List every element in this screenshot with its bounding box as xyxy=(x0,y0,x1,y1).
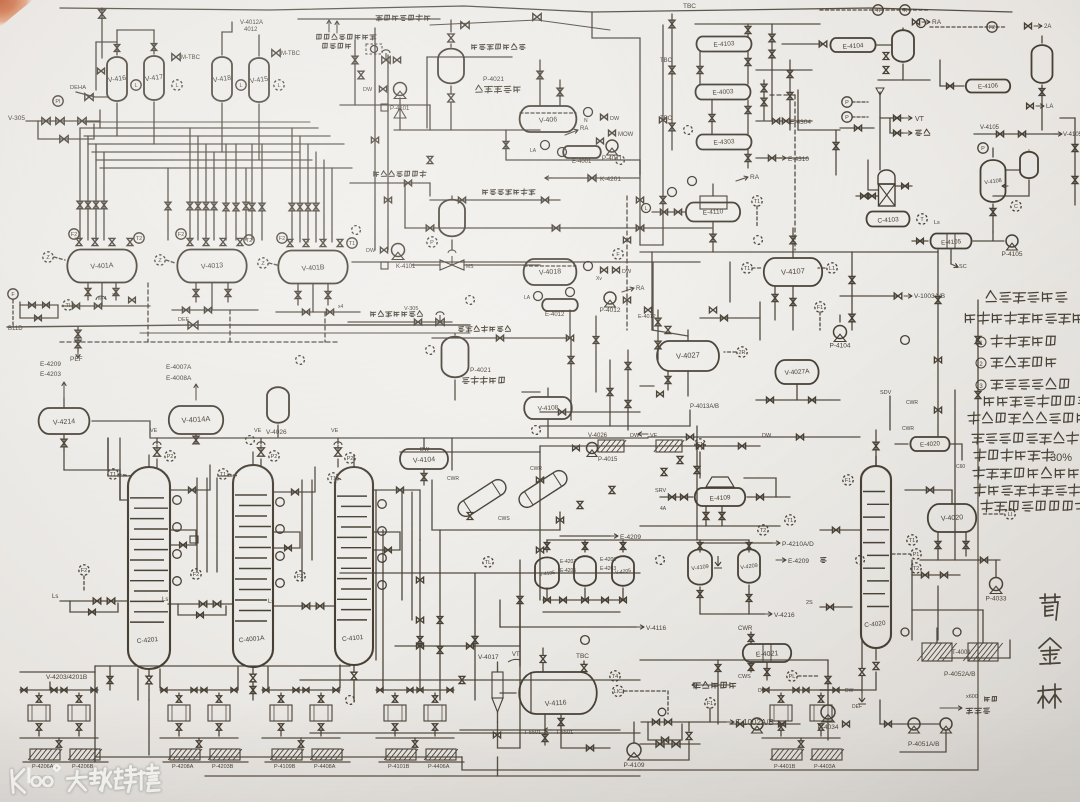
arrow P-4210 xyxy=(700,542,772,544)
wire bundle left drops xyxy=(79,128,81,240)
wire under V-401A xyxy=(87,283,89,300)
vessel V-4104 xyxy=(400,449,448,469)
wire V-4104 xyxy=(423,438,425,449)
vessel V-401B xyxy=(278,251,347,284)
wire top edge line xyxy=(60,6,592,12)
column C-4020 xyxy=(861,466,891,648)
wire PEF drop xyxy=(77,327,79,352)
wire dashed top instruments xyxy=(820,9,930,11)
instrument cluster left of cv xyxy=(427,237,437,247)
wire bundle risers xyxy=(116,103,118,136)
note line10 xyxy=(973,467,985,479)
wire V-1003 line xyxy=(840,295,898,297)
wire P-4051 links xyxy=(880,723,940,725)
wire block frame right xyxy=(798,90,840,130)
valve E-4012 out xyxy=(645,307,652,313)
wire far right capsule xyxy=(1041,36,1043,43)
note line2 cjk xyxy=(965,314,974,323)
wire loop left of V-416 xyxy=(95,42,97,90)
wire x955 vertical xyxy=(954,390,956,560)
wire E-4106 xyxy=(940,85,964,87)
drain symbol right xyxy=(858,692,866,704)
valve x846 y724 xyxy=(843,721,850,727)
vessel V-4018h xyxy=(524,259,577,285)
instrument 2R xyxy=(737,347,747,357)
wire bottom long lines xyxy=(95,665,350,667)
wire pump p4104 xyxy=(839,315,841,322)
wire V-4116 arrow xyxy=(500,626,636,628)
valves scatter bottom mid xyxy=(437,617,443,624)
exchanger E-4104 xyxy=(830,38,875,52)
wire V-4026 drop xyxy=(277,425,279,437)
tilted drier 2 xyxy=(516,468,570,511)
wire group header xyxy=(262,689,340,691)
wire long y437 xyxy=(150,437,648,439)
instrument T1 c4020 xyxy=(785,515,795,525)
wire right drops xyxy=(911,560,913,640)
arrow E-4209b xyxy=(776,559,786,561)
wire v4108 to E-4105 xyxy=(992,232,994,241)
arrow E-4209 xyxy=(560,535,610,537)
exchanger E-4020 xyxy=(910,437,949,451)
valve top left xyxy=(99,10,106,18)
label recycle cjk xyxy=(317,34,322,39)
wire long mid line xyxy=(85,121,310,123)
wire riser x718 xyxy=(717,660,719,724)
wire V-4017 top xyxy=(497,662,499,672)
wire collect xyxy=(506,130,640,160)
wire mid right drops xyxy=(569,310,571,338)
pump P-4105 xyxy=(1006,235,1018,247)
wire reflux C-4201 bottom xyxy=(137,669,139,700)
note line8 xyxy=(972,434,984,444)
wire V-4020 top xyxy=(905,490,952,504)
pump P-4033 xyxy=(990,578,1003,591)
wire C-4103 ring xyxy=(868,160,878,190)
valve DEHA xyxy=(85,94,93,101)
wire E-4105 sides xyxy=(912,240,928,242)
wire dashed header xyxy=(60,341,340,343)
wire V-4116 left xyxy=(500,692,516,694)
side loop C-4001A xyxy=(273,532,300,548)
wire V-4014A feed xyxy=(92,421,150,437)
wire K-4201 line xyxy=(545,177,640,179)
wire bottom line y776 xyxy=(205,775,640,777)
wire group bottom xyxy=(23,761,108,763)
wire E-4020 right xyxy=(951,444,962,460)
vessel V-4020 xyxy=(928,504,976,532)
wire v4014a drop xyxy=(195,434,197,443)
vessel V-4116 xyxy=(519,672,597,714)
valve M-TBC xyxy=(172,54,180,61)
instrument T2 mid xyxy=(758,525,768,535)
wire E-4310 line xyxy=(756,157,808,159)
instrument T1 far xyxy=(917,19,926,28)
wire mid risers xyxy=(570,338,572,420)
wire dashed risers xyxy=(147,283,149,342)
instrument cluster right of C-4020 xyxy=(907,535,917,545)
wire pump out xyxy=(633,730,635,742)
instrument T4 LIC xyxy=(610,671,620,681)
pump box xyxy=(424,705,446,721)
photo lighting overlays xyxy=(0,0,1,1)
hatchbox pair xyxy=(386,749,416,760)
column C-4101 xyxy=(335,467,373,665)
wire FIL loop xyxy=(12,300,14,325)
control valve mid xyxy=(440,260,464,270)
wire flare xyxy=(890,118,903,133)
wire inter-column risers 2 xyxy=(301,480,303,580)
vessel C-4103 base xyxy=(867,212,910,227)
valve below capsule xyxy=(448,94,454,102)
wire reflux C-4001A bottom xyxy=(250,674,256,682)
wire top right frame xyxy=(592,8,1012,12)
instrument TIC xyxy=(63,300,73,310)
instrument LA cluster xyxy=(541,141,550,150)
pump box xyxy=(208,705,230,721)
vessel V-4014A xyxy=(169,406,223,434)
pump box xyxy=(68,705,90,721)
valve bypass xyxy=(60,136,68,143)
wire T-1002 line xyxy=(689,721,726,723)
wire right edge xyxy=(1009,640,1011,658)
exchanger E-4001 xyxy=(563,146,601,158)
wire inter-column risers 1 xyxy=(196,478,198,572)
wire group lower xyxy=(20,737,98,739)
wire LSC xyxy=(950,249,952,264)
note line7 xyxy=(968,412,980,424)
wire top frame right xyxy=(592,12,640,245)
wire group lower xyxy=(160,737,238,739)
small relief xyxy=(96,296,106,300)
valve vt riser xyxy=(879,92,881,170)
arrow mech seal water xyxy=(692,684,730,686)
vessels small row xyxy=(535,557,559,588)
vessel V-4109 xyxy=(688,549,712,584)
instrument circles between vessels xyxy=(131,80,141,90)
instrument P2 row xyxy=(165,451,175,461)
wire gas outlet line xyxy=(350,182,430,184)
wire dashed x627 xyxy=(626,196,628,330)
pump P-4109 xyxy=(627,743,641,757)
valves left drops xyxy=(77,201,83,209)
pump K-4101 xyxy=(392,244,405,257)
side loop C-4201 xyxy=(170,530,196,545)
column C-4001A xyxy=(233,465,273,667)
wire group header xyxy=(160,689,238,691)
wire gas inlet line 2 xyxy=(430,199,560,201)
tilted drier 1 xyxy=(455,477,509,520)
wire headers bottom mid xyxy=(340,572,640,574)
label gas line cjk xyxy=(376,16,383,21)
watermark kloo logo and text xyxy=(12,765,160,793)
wire 640-760 band xyxy=(729,262,731,302)
wire bottom mid extra xyxy=(474,573,476,700)
arrow PEF xyxy=(77,352,79,358)
vessel capsule mid2 xyxy=(439,200,465,237)
arrow RA right xyxy=(912,19,919,25)
wire dashed right col xyxy=(794,95,796,250)
vessel V-4027 xyxy=(657,341,719,371)
wire col vapor to headers xyxy=(108,438,128,476)
instrument Z1 right of V-4107 xyxy=(827,263,837,273)
wire driers frame xyxy=(432,480,560,530)
instrument LA 2 xyxy=(534,292,543,301)
vessel V-416 xyxy=(107,57,127,101)
vessel V-401A xyxy=(67,250,136,283)
instrument circles row right xyxy=(134,233,144,243)
arrow E-4007 up xyxy=(195,384,197,400)
wire long y250 xyxy=(640,251,938,253)
valve C-4201 bottom xyxy=(146,676,152,684)
wire v4020 manifold xyxy=(920,559,1000,561)
wire E-4110 links xyxy=(712,184,714,196)
valve row above V-401A xyxy=(76,238,82,245)
wire V-4216 arrow xyxy=(700,613,764,615)
wire strip verticals xyxy=(49,682,51,690)
photo corner blob xyxy=(0,0,33,27)
wire V-4107 drops xyxy=(774,286,776,320)
hatchbox pair xyxy=(272,749,302,760)
pump P-4034 xyxy=(821,705,835,719)
wire V-406 risers xyxy=(539,60,541,106)
wire small loop left xyxy=(20,302,58,318)
wire vessel tops xyxy=(116,30,118,55)
wire F1 drop xyxy=(815,302,825,312)
wire V-4214 links xyxy=(63,398,65,408)
LS loop C-4201 xyxy=(79,565,89,575)
vessel V-415 xyxy=(249,58,269,102)
pump box xyxy=(770,705,792,721)
wire row drops xyxy=(546,588,548,600)
wire right frame x978 xyxy=(977,300,979,437)
wire header bundle xyxy=(80,127,318,129)
wire frame bottom right xyxy=(640,437,978,770)
valve below E-4110 xyxy=(710,234,716,242)
wire C-4020 top vapor xyxy=(875,456,877,466)
triangle relief xyxy=(394,108,406,118)
wire group lower xyxy=(376,737,454,739)
wire group header xyxy=(762,689,840,691)
wire long y225 xyxy=(405,227,712,229)
valve M-TBC 2 xyxy=(272,50,280,57)
note line11 xyxy=(974,484,986,496)
wire long vert x540 xyxy=(539,446,541,600)
arrow E-4209 up xyxy=(63,382,65,398)
wire right risers C-4101 xyxy=(375,490,377,660)
wire x852 drop xyxy=(851,252,853,330)
exchanger E-4303 xyxy=(697,135,752,150)
LS loop C-4101 xyxy=(295,571,305,581)
wire scatter xyxy=(371,137,378,143)
instrument extra scatter xyxy=(352,226,361,235)
instrument T dashes xyxy=(752,196,762,206)
note item2 xyxy=(976,358,986,368)
instrument right of V-4018 xyxy=(584,262,593,271)
column C-4103 packing xyxy=(879,184,896,206)
pump box xyxy=(270,705,292,721)
vessel V-411 xyxy=(892,30,914,62)
wire V-4107 top xyxy=(792,228,794,258)
wire y640 run xyxy=(640,659,828,661)
note title cjk xyxy=(986,291,996,302)
wire riser x405 xyxy=(404,183,406,228)
instrument PI xyxy=(53,96,63,106)
valve drop under line xyxy=(686,732,692,739)
wire frame V-406 cluster xyxy=(426,57,428,128)
wire V-4209 drop xyxy=(748,585,750,614)
instrument T2 right xyxy=(917,214,927,224)
cluster P-4015 xyxy=(587,443,598,454)
instrument right V-4020 xyxy=(1005,509,1015,519)
wire mid drops xyxy=(167,168,169,240)
vessel V-417 xyxy=(144,56,164,100)
valve left of riser xyxy=(854,125,861,131)
wire group header xyxy=(20,689,98,691)
arrow 2A xyxy=(1025,23,1032,29)
vessel far right capsule xyxy=(1032,45,1053,83)
vessel V-418 xyxy=(212,57,232,101)
instrument P xyxy=(978,143,988,153)
instrument F1 mid xyxy=(695,439,705,449)
exchanger E-4105 xyxy=(931,234,972,249)
exchanger E-4106 xyxy=(966,80,1010,93)
instrument F2 row xyxy=(69,229,79,239)
valve V-411 bottom xyxy=(883,53,889,60)
exchanger E-4103 xyxy=(697,37,752,52)
wire under V-4116 drops xyxy=(544,714,546,745)
wire group lower xyxy=(762,737,840,739)
wire x497 bottom xyxy=(498,722,521,748)
wire small row tops xyxy=(546,540,548,552)
wire extra bundle drops xyxy=(225,144,227,240)
wire reflux C-4101 bottom xyxy=(351,672,357,680)
vessel V-4108 xyxy=(981,160,1006,202)
column C-4201 xyxy=(128,467,170,669)
wire long y426 xyxy=(540,425,690,427)
vessel V-4026b xyxy=(267,387,289,423)
wire top connect xyxy=(354,40,356,105)
wire drops to V-4013 xyxy=(189,128,191,240)
wire y452 run xyxy=(400,451,540,453)
wire inter-column risers 3 xyxy=(401,492,403,600)
wire drier feed xyxy=(451,438,453,470)
instrument F1 t1002 xyxy=(705,698,715,708)
wire V-411 xyxy=(902,28,904,29)
wire y690 link xyxy=(820,689,862,691)
wire P-4034 xyxy=(827,660,829,704)
instrument FIL xyxy=(8,289,18,299)
wire bypass loop T1002 xyxy=(641,721,689,723)
wire P-4033 xyxy=(995,560,997,577)
wire group header xyxy=(376,689,454,691)
instrument side circles C-4201 xyxy=(173,496,182,505)
wire y444 run xyxy=(540,445,760,447)
pump small x757 xyxy=(751,718,763,730)
exchanger E-4003 xyxy=(696,85,751,100)
wire mid verticals extra xyxy=(652,262,654,330)
wire risers x375 xyxy=(374,28,376,250)
LS loop C-4001A xyxy=(191,569,201,579)
pump box xyxy=(810,705,832,721)
wire y437 extension xyxy=(648,436,860,438)
note line6 xyxy=(984,397,993,406)
instrument PL xyxy=(787,671,797,681)
instrument pair small xyxy=(901,628,909,636)
control valve cluster xyxy=(382,57,390,64)
valve E-4104 in xyxy=(819,41,827,47)
wire v4116 bottom line xyxy=(561,730,610,748)
valve bottom pair xyxy=(656,741,664,747)
pumps P-4051AB xyxy=(908,718,920,730)
wire group bottom xyxy=(163,761,248,763)
arrow RA 2 xyxy=(622,288,634,292)
wire far right top xyxy=(930,26,1005,28)
label gas inlet cjk 2 xyxy=(483,190,488,195)
column C-4103 dome xyxy=(878,170,895,184)
wire E-4304 line xyxy=(756,120,812,122)
wire main header y325 xyxy=(7,325,470,327)
vessel V-4108h xyxy=(524,397,572,419)
note item1 xyxy=(976,337,986,347)
wire V-4027 bottom xyxy=(667,371,669,390)
wire group bottom xyxy=(265,761,350,763)
wire gas inlet 3 xyxy=(432,337,570,339)
exchanger E-4110 box xyxy=(700,196,727,209)
pump P-4101 xyxy=(394,83,407,96)
valve col v4020 xyxy=(921,572,928,578)
wire small row manifold xyxy=(543,599,625,601)
vessel V-4107 xyxy=(764,258,822,286)
wire second top line xyxy=(298,18,440,20)
wire xyxy=(430,20,610,30)
vessel V-4017 funnel xyxy=(492,672,503,698)
instrument N2 xyxy=(584,108,593,117)
wire right col down xyxy=(937,250,939,437)
valve row above V-4013 xyxy=(187,238,193,245)
label gas outlet cjk 3 xyxy=(371,312,376,317)
wire hatch links xyxy=(936,628,938,643)
hatchbox pair xyxy=(170,749,200,760)
label gas inlet cjk xyxy=(472,45,477,50)
exchanger E-4109 xyxy=(695,488,745,506)
wire bottom connect right xyxy=(462,757,640,770)
valve top line xyxy=(533,14,541,21)
wire under V-401B xyxy=(297,284,299,305)
exchanger E-4110 xyxy=(686,203,740,222)
pump box xyxy=(168,705,190,721)
instrument dashed box xyxy=(366,44,382,54)
note line9 xyxy=(974,449,986,461)
wire bypass loop xyxy=(38,121,94,139)
signature Xun Jin Lin xyxy=(1040,594,1060,601)
pump box xyxy=(310,705,332,721)
arrow T-4001 xyxy=(940,657,1010,659)
wire riser to header xyxy=(99,110,101,128)
wire V-4108 links xyxy=(992,148,994,157)
exchanger E-4021 xyxy=(743,644,791,662)
wire pump down xyxy=(399,98,401,130)
instrument F1 top c4020 xyxy=(843,475,853,485)
vessel capsule mid xyxy=(438,49,464,84)
vessel capsule mid3 xyxy=(442,337,469,378)
valve pair mid xyxy=(833,142,839,149)
wire far right edge xyxy=(1074,118,1076,205)
hatchbox P-4052A xyxy=(922,643,952,661)
vessel V-4013 xyxy=(177,250,246,283)
wire E risers xyxy=(747,24,749,37)
vessel V-4027A xyxy=(775,360,818,384)
